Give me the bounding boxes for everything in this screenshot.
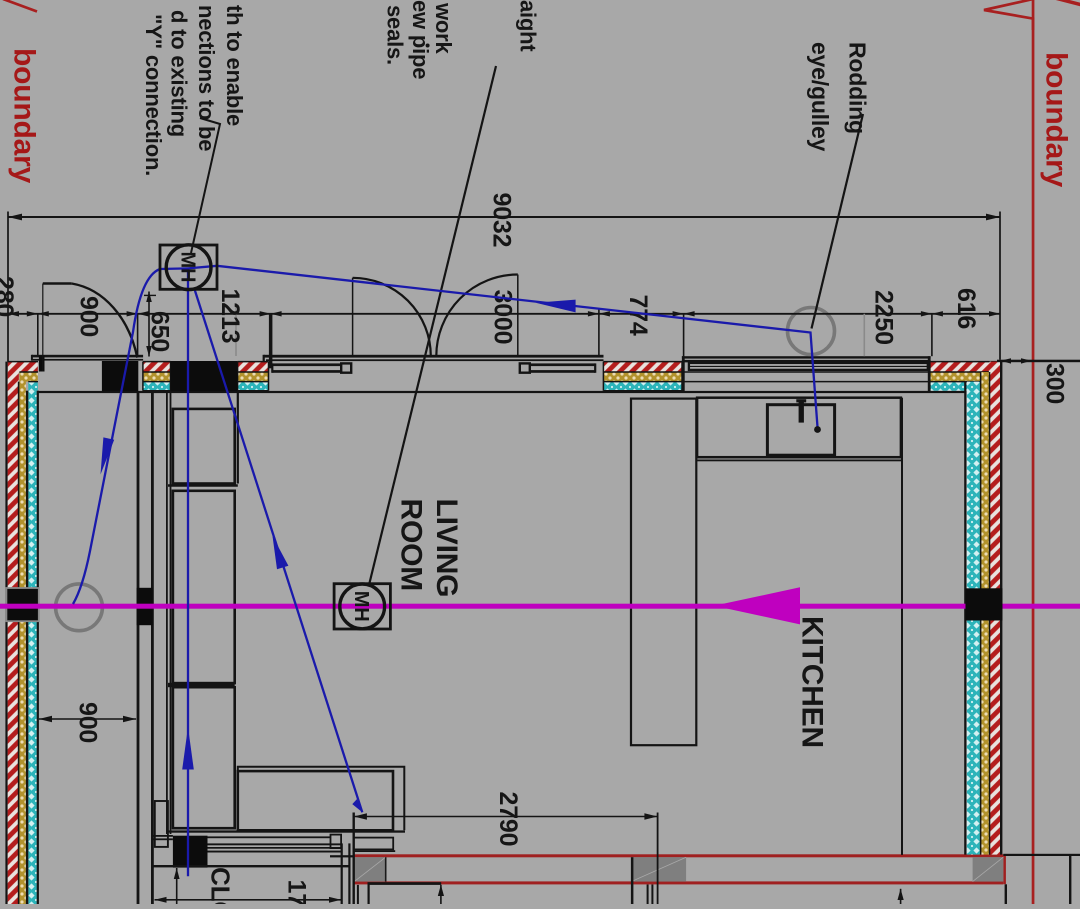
lower room wall line vertical b [357, 885, 359, 904]
dim chain line [0, 313, 1000, 315]
magenta section line [0, 604, 1080, 609]
svg-text:2250: 2250 [870, 290, 898, 345]
window 2 frame double line [530, 363, 595, 366]
sofa back line outer [166, 392, 168, 834]
magenta section arrow [714, 587, 800, 624]
right wall cyan column [967, 382, 980, 855]
dim 2790 line [354, 816, 658, 818]
300 dim arrows [1001, 358, 1012, 363]
svg-text:MH: MH [350, 591, 372, 622]
french door left swing arc [353, 278, 431, 356]
top wall hatch segment 2 tan [143, 372, 171, 382]
svg-text:9032: 9032 [488, 193, 516, 248]
svg-text:LIVING: LIVING [430, 499, 463, 598]
top wall hatch segment 3 tan [238, 372, 269, 382]
manhole MH1 [160, 245, 217, 289]
sofa cushion divider thick [168, 683, 235, 687]
svg-text:300: 300 [1041, 363, 1069, 404]
gray extension line b [863, 314, 865, 356]
svg-text:ROOM: ROOM [395, 499, 428, 592]
kitchen window jamb right [928, 356, 931, 393]
svg-text:aight: aight [516, 0, 541, 52]
right wall outer line [1000, 361, 1002, 855]
door1 hinge line [42, 284, 44, 372]
lower room wall line vertical e pair [647, 885, 649, 905]
black overlap wall line below cloaks [368, 882, 442, 885]
left wall pier at section line [6, 588, 38, 621]
window 1 mullion block [341, 363, 351, 372]
cloaks door jamb rect [155, 801, 168, 847]
corridor partition wall line A [137, 392, 140, 904]
lower room wall line vertical f [1005, 884, 1007, 904]
top wall hatch segment 4 red [603, 362, 682, 372]
left wall layer separator lines [18, 382, 20, 904]
cloaks top wall lines right of pier [208, 843, 342, 845]
top wall inner face line [38, 391, 966, 393]
lower room wall line vertical g (right edge) [1069, 855, 1071, 904]
drain run MH1 steep diagonal [194, 288, 362, 813]
window 1 jamb thick [269, 314, 273, 368]
left wall tan column [19, 382, 26, 904]
door1 leaf stub [43, 282, 72, 284]
stray period [426, 44, 430, 48]
kitchen counter front line [697, 460, 902, 462]
top wall hatch corner-right cyan [930, 382, 980, 391]
svg-text:2790: 2790 [494, 792, 522, 847]
top wall hatch cyan band corner-left [28, 382, 38, 391]
top wall pier 1 (solid) [102, 361, 138, 391]
top wall hatch segment 3 cyan [238, 382, 269, 391]
2790 extension line through wall [657, 813, 659, 905]
existing wall red line top (bottom band) [354, 854, 1004, 857]
partition pier at section line [137, 588, 153, 625]
left wall cyan column [28, 391, 36, 904]
right wall pier at section line (over magenta) [966, 588, 1003, 620]
existing wall gray block 1 edge [385, 857, 387, 881]
sofa seat section 2 [173, 491, 235, 683]
kitchen tap [799, 401, 804, 422]
top wall hatch segment 3 red [238, 362, 269, 372]
svg-text:173: 173 [283, 880, 311, 905]
right wall layer separator lines [980, 372, 982, 855]
existing wall gray block 2 [631, 857, 686, 881]
door1 jamb block [39, 356, 45, 372]
svg-text:d to existing: d to existing [167, 10, 192, 137]
left wall inner line [37, 391, 39, 904]
top wall hatch segment 2 red [143, 362, 171, 372]
leader to MH2 [369, 66, 496, 585]
overall dim line 9032 [8, 216, 1000, 218]
existing wall gray block 3 [973, 857, 1004, 881]
sofa arm small rect A [331, 835, 342, 849]
sink connection dot [814, 426, 821, 433]
overall dim extension left [7, 212, 9, 362]
svg-text:KITCHEN: KITCHEN [796, 616, 829, 748]
window 1 frame double line [272, 363, 341, 366]
svg-text:boundary: boundary [8, 48, 41, 184]
manhole MH2 [334, 584, 390, 629]
window 2 mullion block [520, 363, 530, 372]
sofa back line inner [170, 392, 172, 834]
right wall tan column [981, 372, 989, 855]
boundary zigzag fragment top-left [3, 0, 37, 12]
top wall hatch segment 4 cyan [603, 382, 682, 391]
top wall pier 2 (solid) [171, 361, 238, 391]
svg-text:ew pipe: ew pipe [408, 0, 433, 79]
top wall hatch corner-right red [930, 362, 1000, 372]
drain run MH1 to gulley to sink [188, 266, 818, 427]
french door right hinge line [517, 275, 519, 357]
sofa arm line [354, 850, 396, 852]
cloaks dim line [155, 899, 342, 901]
svg-text:280: 280 [0, 276, 18, 317]
cloaks top wall lines left of pier [152, 835, 173, 837]
sofa arm rect B [354, 838, 394, 850]
window/door assembly sill lines (left unit) [264, 355, 604, 358]
cloaks/ext wall black line to red wall [330, 855, 354, 857]
dim chain ticks [38, 309, 932, 357]
drain run MH1 vertical [187, 268, 189, 876]
top wall hatch segment 2 cyan [143, 382, 171, 391]
existing wall gray block 1 [354, 857, 385, 881]
boundary zigzag top-right [984, 0, 1060, 30]
lower room dim arrow up right [898, 889, 904, 900]
svg-text:1213: 1213 [216, 289, 244, 344]
sofa niche divider horizontal [168, 484, 238, 487]
svg-text:900: 900 [75, 296, 103, 337]
right wall inner line [964, 382, 966, 855]
top wall hatch border lines [8, 362, 1000, 391]
cloaks outer wall line [208, 836, 331, 838]
svg-text:work: work [431, 2, 456, 55]
existing wall red vertical end [1003, 855, 1006, 885]
rodding eye circle [788, 308, 835, 355]
gray extension line a [235, 303, 237, 356]
overall dim extension right [999, 212, 1001, 360]
black wall line continuing right of red wall [1003, 854, 1080, 856]
left wall outer line [5, 362, 7, 904]
drain arrow on steep diagonal [273, 536, 289, 569]
door1 lintel double line [32, 355, 143, 358]
right wall red hatch column [990, 362, 1000, 855]
sofa seat section 1 [173, 409, 235, 484]
gulley circle left [56, 584, 103, 631]
svg-text:650: 650 [146, 311, 174, 352]
svg-text:seals.: seals. [383, 5, 408, 65]
drain arrow on left branch [101, 437, 115, 474]
svg-text:Rodding: Rodding [845, 42, 871, 134]
top wall hatch segment 4 tan [603, 372, 682, 382]
sofa bottom edge lines [168, 830, 405, 832]
dim 650 vertical line [148, 292, 150, 357]
cloaks right wall lines [341, 843, 343, 904]
french door right swing arc [436, 275, 518, 357]
svg-text:900: 900 [74, 702, 102, 743]
lower room top wall line [368, 882, 442, 884]
top wall hatch tan band corner-left [19, 372, 37, 382]
top wall hatch red band segment corner-left [8, 362, 38, 372]
corridor partition wall line B [151, 392, 154, 904]
lower room wall line vertical a [353, 813, 355, 905]
svg-text:"Y" connection.: "Y" connection. [141, 14, 166, 176]
kitchen window frame [689, 363, 928, 370]
sofa bottom cushion [238, 771, 393, 830]
sofa bottom outline [238, 767, 404, 831]
kitchen sink [767, 405, 834, 456]
cloaks inner wall line [151, 865, 350, 867]
french door left hinge line [352, 278, 354, 356]
drain arrow on vertical run [182, 727, 194, 770]
kitchen right edge line [901, 398, 903, 855]
kitchen island [631, 399, 696, 746]
lower room dim arrow up [438, 885, 444, 896]
leader to MH1 [191, 118, 220, 253]
svg-text:MH: MH [177, 252, 199, 283]
drain arrow on main run [536, 300, 576, 313]
cloaks pier (solid) [173, 836, 208, 868]
boundary line (red, right) [1032, 0, 1035, 904]
svg-text:boundary: boundary [1040, 52, 1073, 188]
lower room wall line vertical c [368, 885, 370, 905]
dim chain arrows [8, 311, 1000, 316]
svg-text:CLOAKS: CLOAKS [206, 867, 236, 904]
sofa niche divider vertical [237, 393, 239, 484]
leader to rodding gulley [812, 114, 864, 329]
sofa seat section 3 [173, 687, 235, 828]
kitchen window jamb left [682, 356, 685, 393]
kitchen window sill double line [682, 356, 931, 358]
svg-text:616: 616 [952, 288, 980, 329]
overall dim arrows [8, 214, 22, 221]
cloaks vertical dim [176, 868, 178, 904]
svg-text:eye/gulley: eye/gulley [807, 42, 833, 152]
kitchen counter [697, 398, 901, 458]
lower room wall line vertical d [631, 857, 634, 904]
existing wall red line bottom [354, 881, 1004, 884]
svg-text:th to enable: th to enable [222, 5, 247, 126]
left wall red hatch column [8, 372, 19, 904]
outer face line right of corner ("300" dim line) [997, 360, 1080, 363]
door1 swing arc [72, 284, 138, 358]
drain run left circle to MH1 [73, 268, 188, 604]
top wall hatch corner-right tan [930, 372, 989, 382]
svg-text:nections to be: nections to be [194, 5, 219, 151]
dim 900 left room [39, 718, 136, 720]
drain arrow small at diagonal end [352, 799, 362, 812]
